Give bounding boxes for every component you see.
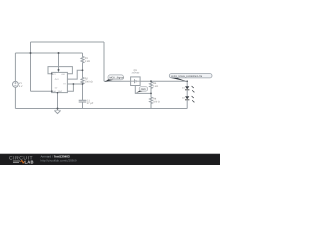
wire IC V+ stub: [58, 53, 60, 72]
svg-text:200 kΩ: 200 kΩ: [85, 81, 93, 84]
svg-text:http://circuitlab.com/c/29369: http://circuitlab.com/c/29369: [41, 159, 77, 163]
wire IC threshold to R2 bottom: [67, 83, 82, 85]
wire top bar: [31, 41, 105, 43]
node LED supply label flag: [169, 74, 212, 82]
wire IC gnd to bus: [57, 93, 59, 109]
wire left mid vertical: [30, 42, 32, 91]
wire left vertical to V1 top: [14, 53, 16, 81]
footer bar: [0, 153, 220, 165]
svg-text:GND: GND: [141, 88, 146, 91]
transistor Q1 box: [131, 77, 141, 86]
svg-text:LED1_10mm_LED500mA TB: LED1_10mm_LED500mA TB: [171, 75, 202, 78]
wire right vertical from top bar: [103, 42, 105, 81]
wire Q1 drain to LED top: [140, 80, 187, 82]
LED D1: [185, 81, 195, 96]
voltage source V1: [13, 81, 19, 87]
svg-text:TRIG: TRIG: [58, 90, 63, 93]
node flag at Q1 source: [136, 87, 148, 93]
capacitor C1: [79, 84, 87, 109]
svg-text:MCU_Signal: MCU_Signal: [110, 77, 124, 80]
svg-text:1 kΩ: 1 kΩ: [85, 60, 90, 63]
wire Q1 source jog: [135, 86, 151, 94]
wire V1 bottom down: [14, 87, 16, 108]
svg-text:100 Ω: 100 Ω: [153, 101, 160, 104]
wire ground bus: [15, 108, 187, 110]
resistor R1: [81, 53, 84, 70]
wire trigger tie: [67, 84, 73, 91]
junction dots: [30, 52, 189, 110]
wire reset loop: [48, 67, 72, 74]
svg-text:47 µF: 47 µF: [87, 102, 94, 105]
resistor R6: [150, 93, 153, 108]
op-amp U1 555 timer box: [52, 72, 68, 93]
wire into IC left pin 4: [31, 90, 52, 92]
svg-text:5 V: 5 V: [19, 85, 23, 88]
resistor R2: [81, 70, 84, 84]
wire to Q1 gate: [104, 80, 131, 82]
wire V+ bus horizontal: [15, 52, 82, 54]
svg-text:1 kΩ: 1 kΩ: [153, 85, 158, 88]
LED D2: [185, 96, 195, 109]
ground: [54, 109, 60, 114]
svg-text:LAB: LAB: [25, 159, 34, 164]
wire R1 bottom jog to IC discharge: [67, 70, 82, 79]
svg-text:2N7000: 2N7000: [132, 72, 140, 75]
node MCU_Signal flag: [105, 75, 124, 82]
resistor R5: [150, 81, 153, 93]
